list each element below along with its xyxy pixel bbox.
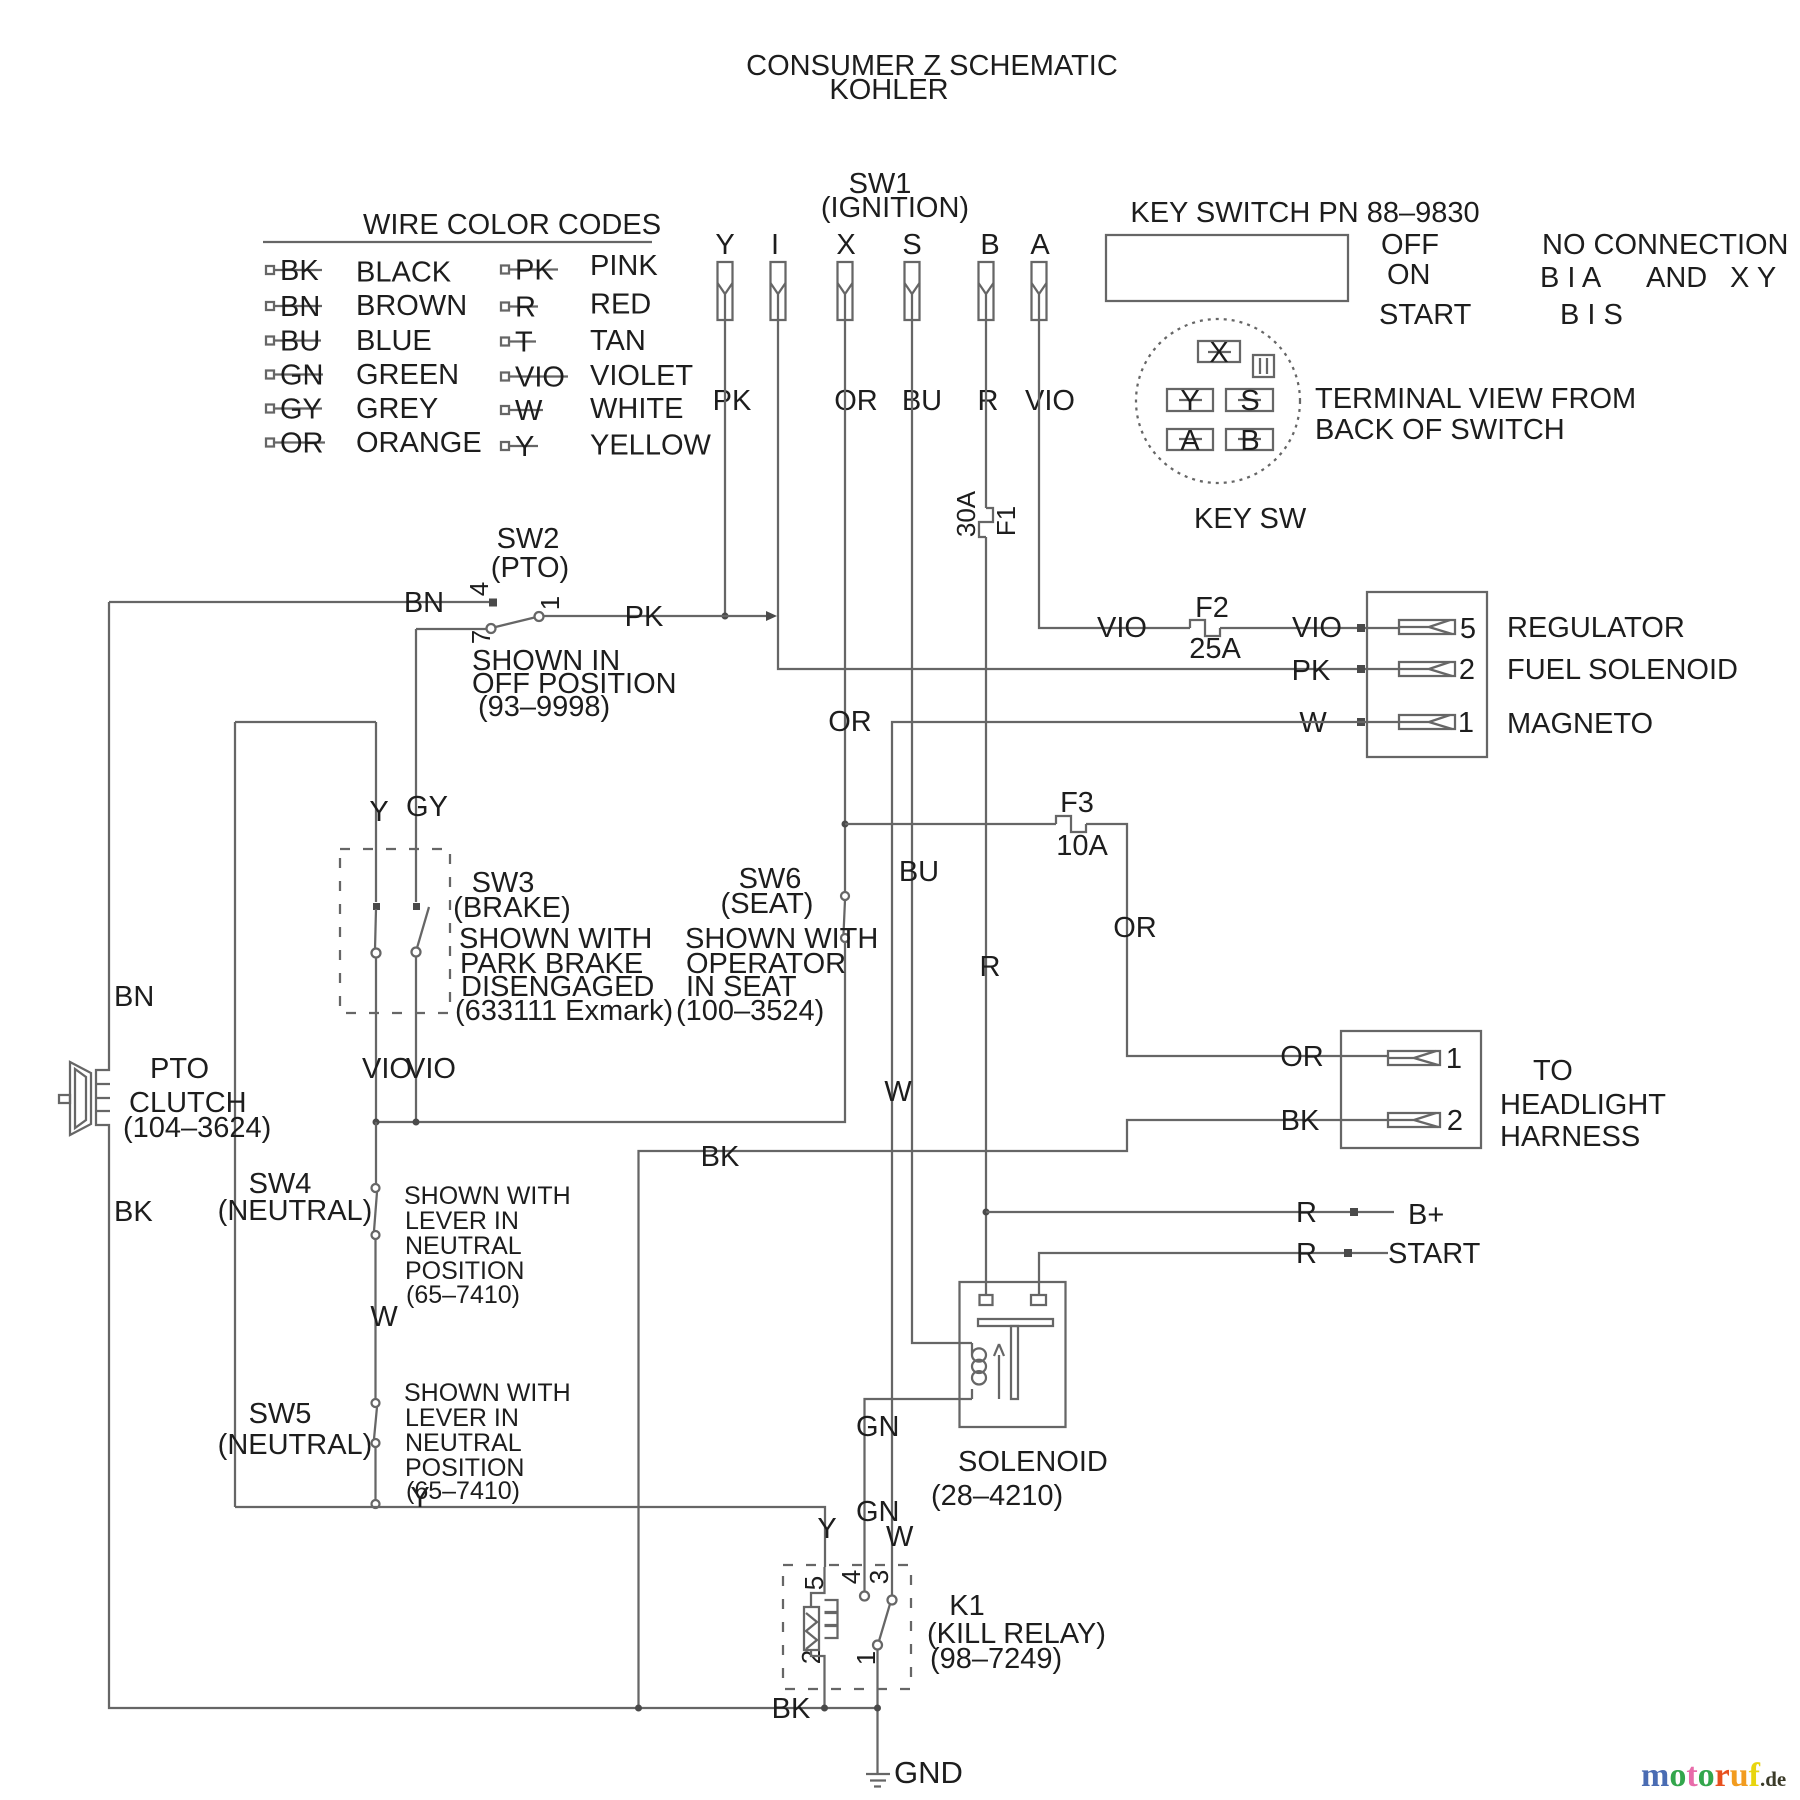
- SW1 terminal X connector: [838, 262, 853, 320]
- svg-text:BK: BK: [114, 1196, 153, 1228]
- terminal view box S: [1226, 389, 1273, 411]
- wire code OR ORANGE: [266, 439, 274, 447]
- svg-text:X: X: [836, 229, 855, 261]
- svg-text:OR: OR: [834, 385, 878, 417]
- terminal view box Y: [1167, 389, 1213, 411]
- svg-text:BROWN: BROWN: [356, 290, 467, 322]
- headlight connector terminal 1: [1388, 1051, 1440, 1065]
- wire code PK PINK: [501, 266, 509, 274]
- svg-text:KEY SW: KEY SW: [1194, 503, 1307, 535]
- wire PK from SW2 contact 1 to I wire: [544, 615, 771, 617]
- svg-text:NEUTRAL: NEUTRAL: [405, 1232, 522, 1260]
- svg-text:(98–7249): (98–7249): [930, 1643, 1062, 1675]
- svg-text:A: A: [1030, 229, 1050, 261]
- SW1 terminal A connector: [1032, 262, 1047, 320]
- svg-text:HEADLIGHT: HEADLIGHT: [1500, 1089, 1666, 1121]
- engine connector terminal 1 (magneto): [1399, 715, 1455, 729]
- svg-text:VIOLET: VIOLET: [590, 360, 693, 392]
- svg-text:NO CONNECTION: NO CONNECTION: [1542, 229, 1789, 261]
- svg-text:4: 4: [464, 582, 494, 596]
- engine connector terminal 5 (regulator): [1399, 620, 1455, 634]
- svg-text:OR: OR: [1113, 912, 1157, 944]
- svg-text:Y: Y: [715, 229, 734, 261]
- svg-text:RED: RED: [590, 289, 651, 321]
- svg-text:10A: 10A: [1056, 830, 1108, 862]
- wire X (OR) from SW1 X terminal down to seat switch: [844, 320, 846, 892]
- wire R to B+: [986, 1211, 1394, 1213]
- wire from SW2 contact 7 to GY riser: [416, 628, 487, 630]
- svg-text:2: 2: [1459, 654, 1475, 686]
- svg-text:BLACK: BLACK: [356, 257, 452, 289]
- svg-text:WHITE: WHITE: [590, 393, 683, 425]
- svg-text:1: 1: [1446, 1043, 1462, 1075]
- svg-text:4: 4: [836, 1570, 866, 1584]
- svg-text:BK: BK: [701, 1141, 740, 1173]
- PTO clutch wedge: [70, 1062, 91, 1135]
- svg-text:VIO: VIO: [362, 1053, 412, 1085]
- svg-text:X Y: X Y: [1730, 262, 1776, 294]
- kill relay coil output: [811, 1650, 825, 1708]
- wire I (PK) from SW1 I terminal to fuel solenoid: [778, 320, 1399, 669]
- svg-text:R: R: [515, 292, 536, 324]
- key switch box: [1106, 235, 1348, 301]
- svg-text:VIO: VIO: [1292, 612, 1342, 644]
- node square marker PK at fuel solenoid: [1357, 665, 1365, 673]
- wire VIO from fuse F2 to regulator connector: [1220, 627, 1399, 629]
- svg-text:X: X: [1209, 337, 1228, 369]
- svg-text:OR: OR: [828, 706, 872, 738]
- SW5 bottom contact: [372, 1439, 380, 1447]
- svg-text:(93–9998): (93–9998): [478, 691, 610, 723]
- SW3 left pole bottom contact: [372, 949, 381, 958]
- terminal view box A: [1167, 429, 1213, 450]
- node junction BK riser on bottom bus: [635, 1705, 642, 1712]
- svg-text:Y: Y: [410, 1482, 429, 1514]
- SW4 arm: [374, 1192, 377, 1231]
- node PK junction on Y wire: [722, 613, 729, 620]
- node VIO junction right: [413, 1119, 420, 1126]
- node junction relay coil on bottom bus: [821, 1705, 828, 1712]
- svg-text:R: R: [978, 385, 999, 417]
- SW1 terminal B connector: [979, 262, 994, 320]
- svg-text:BN: BN: [114, 981, 154, 1013]
- svg-text:BN: BN: [280, 291, 320, 323]
- solenoid plunger T bar: [978, 1319, 1053, 1326]
- svg-text:GN: GN: [280, 360, 324, 392]
- wire OR branch to fuse F3: [845, 823, 1056, 825]
- svg-text:OFF: OFF: [1381, 229, 1439, 261]
- svg-text:S: S: [902, 229, 921, 261]
- svg-text:F2: F2: [1195, 592, 1229, 624]
- node square marker W at magneto: [1357, 718, 1365, 726]
- svg-text:(NEUTRAL): (NEUTRAL): [218, 1429, 373, 1461]
- svg-text:F1: F1: [991, 506, 1021, 536]
- SW6 switch arm: [844, 900, 846, 934]
- svg-text:(NEUTRAL): (NEUTRAL): [218, 1195, 373, 1227]
- fuse F2 25A: [1190, 620, 1220, 636]
- wire BN/BK left bus with PTO clutch: [96, 602, 878, 1708]
- SW3 right pole top terminal: [413, 903, 420, 910]
- svg-text:(IGNITION): (IGNITION): [821, 192, 969, 224]
- solenoid terminal right (R): [1031, 1295, 1046, 1305]
- solenoid box: [960, 1282, 1066, 1427]
- svg-text:(SEAT): (SEAT): [721, 888, 814, 920]
- kill relay coil: [804, 1607, 819, 1650]
- svg-text:SHOWN WITH: SHOWN WITH: [404, 1182, 571, 1210]
- svg-text:Y: Y: [817, 1513, 836, 1545]
- ground symbol: [866, 1774, 890, 1787]
- svg-text:B I A: B I A: [1540, 262, 1602, 294]
- wire VIO from SW3 left pole down: [375, 957, 377, 1122]
- svg-text:PK: PK: [713, 385, 752, 417]
- svg-text:(104–3624): (104–3624): [123, 1112, 271, 1144]
- svg-text:BK: BK: [1281, 1105, 1320, 1137]
- svg-text:TERMINAL VIEW FROM: TERMINAL VIEW FROM: [1315, 383, 1636, 415]
- wire W between SW4 and SW5: [374, 1239, 376, 1399]
- solenoid coil: [972, 1343, 986, 1399]
- wire code BK BLACK: [266, 266, 274, 274]
- kill relay coil input jog: [811, 1567, 825, 1607]
- wire left riser down to Y bus: [234, 722, 236, 1507]
- wire GY from SW2 down to SW3: [415, 629, 417, 902]
- svg-text:(28–4210): (28–4210): [931, 1480, 1063, 1512]
- SW5 output terminal on Y bus: [372, 1500, 380, 1508]
- wire code GY GREY: [266, 405, 274, 413]
- terminal view box X: [1198, 341, 1240, 362]
- wire code BN BROWN: [266, 302, 274, 310]
- SW5 top contact: [372, 1399, 380, 1407]
- wire code R RED: [501, 303, 509, 311]
- wire code VIO VIOLET: [501, 373, 509, 381]
- svg-text:LEVER IN: LEVER IN: [405, 1207, 519, 1235]
- SW2 contact 7: [487, 624, 496, 633]
- svg-text:SW5: SW5: [249, 1398, 312, 1430]
- svg-text:W: W: [884, 1076, 912, 1108]
- SW3 right pole bottom contact: [412, 948, 421, 957]
- svg-text:SHOWN WITH: SHOWN WITH: [404, 1379, 571, 1407]
- svg-text:GND: GND: [894, 1755, 963, 1790]
- wire VIO from SW3 right pole down: [415, 956, 417, 1122]
- terminal view box B: [1226, 429, 1273, 450]
- fuse F3 10A: [1056, 816, 1086, 832]
- node square marker B+: [1350, 1208, 1358, 1216]
- svg-text:MAGNETO: MAGNETO: [1507, 708, 1653, 740]
- svg-text:(633111 Exmark): (633111 Exmark): [455, 995, 673, 1027]
- svg-text:BN: BN: [404, 587, 444, 619]
- svg-text:30A: 30A: [951, 490, 981, 537]
- SW1 terminal Y connector: [718, 262, 733, 320]
- kill relay pivot contact 1: [873, 1641, 882, 1650]
- wire A (VIO) from SW1 A terminal to fuse F2: [1039, 320, 1190, 628]
- solenoid arrow up: [994, 1344, 1004, 1399]
- kill relay arm: [879, 1604, 890, 1641]
- svg-text:KEY SWITCH PN 88–9830: KEY SWITCH PN 88–9830: [1130, 197, 1479, 229]
- PTO clutch prongs: [96, 1084, 110, 1111]
- svg-text:Y: Y: [369, 796, 388, 828]
- headlight connector box: [1341, 1031, 1481, 1148]
- svg-text:BU: BU: [902, 385, 942, 417]
- kill relay common to ground: [876, 1650, 878, 1775]
- svg-text:W: W: [370, 1301, 398, 1333]
- svg-text:PK: PK: [1292, 655, 1331, 687]
- PTO clutch tab: [59, 1095, 70, 1103]
- svg-text:B: B: [1240, 425, 1259, 457]
- svg-text:B: B: [980, 229, 999, 261]
- headlight connector terminal 2: [1388, 1113, 1440, 1127]
- terminal view circle: [1136, 319, 1300, 483]
- svg-text:OR: OR: [280, 428, 324, 460]
- svg-text:BU: BU: [899, 856, 939, 888]
- switch SW3 dashed box: [340, 849, 450, 1013]
- wire W from magneto down to kill relay: [892, 722, 1399, 1596]
- svg-text:ON: ON: [1387, 259, 1431, 291]
- svg-text:ORANGE: ORANGE: [356, 427, 482, 459]
- wire code Y YELLOW: [501, 442, 509, 450]
- svg-text:(100–3524): (100–3524): [676, 995, 824, 1027]
- wire bridge from left riser to Y riser: [235, 721, 376, 723]
- node junction B+ on R wire: [983, 1209, 990, 1216]
- kill relay dashed box: [783, 1565, 911, 1689]
- engine connector terminal 2 (fuel solenoid): [1399, 662, 1455, 676]
- kill relay contact 3: [888, 1596, 897, 1605]
- wire GN from solenoid coil to kill relay: [865, 1399, 973, 1591]
- svg-text:S: S: [1240, 385, 1259, 417]
- SW1 terminal I connector: [771, 262, 786, 320]
- svg-text:R: R: [1296, 1238, 1317, 1270]
- svg-text:OR: OR: [1280, 1041, 1324, 1073]
- SW4 bottom contact: [372, 1231, 380, 1239]
- wire Y bus: [235, 1507, 825, 1567]
- wire Y (PK) from SW1 Y terminal: [724, 320, 726, 616]
- svg-text:AND: AND: [1646, 262, 1707, 294]
- svg-text:T: T: [515, 327, 533, 359]
- svg-text:PINK: PINK: [590, 250, 658, 282]
- SW3 right pole arm (open): [417, 907, 429, 948]
- svg-text:SW2: SW2: [497, 523, 560, 555]
- svg-text:R: R: [1296, 1197, 1317, 1229]
- svg-text:VIO: VIO: [515, 362, 565, 394]
- svg-text:VIO: VIO: [1097, 612, 1147, 644]
- solenoid terminal left (R): [980, 1295, 993, 1305]
- svg-text:(65–7410): (65–7410): [406, 1281, 520, 1309]
- svg-text:VIO: VIO: [406, 1053, 456, 1085]
- svg-text:(BRAKE): (BRAKE): [453, 892, 571, 924]
- svg-text:F3: F3: [1060, 787, 1094, 819]
- wire code GN GREEN: [266, 371, 274, 379]
- wire VIO riser down to SW4: [375, 1122, 377, 1184]
- kill relay contact 4: [860, 1592, 869, 1601]
- svg-text:GY: GY: [406, 791, 448, 823]
- svg-text:HARNESS: HARNESS: [1500, 1121, 1640, 1153]
- svg-text:GREEN: GREEN: [356, 359, 459, 391]
- svg-text:B I S: B I S: [1560, 299, 1623, 331]
- svg-text:PK: PK: [515, 255, 554, 287]
- SW2 contact 1: [535, 612, 544, 621]
- svg-text:REGULATOR: REGULATOR: [1507, 612, 1685, 644]
- svg-text:BK: BK: [280, 255, 319, 287]
- svg-text:NEUTRAL: NEUTRAL: [405, 1429, 522, 1457]
- svg-text:W: W: [886, 1521, 914, 1553]
- wire BN from left bus to SW2 terminal 4: [109, 601, 489, 603]
- svg-text:START: START: [1379, 299, 1472, 331]
- svg-text:5: 5: [1460, 613, 1476, 645]
- svg-text:25A: 25A: [1189, 633, 1241, 665]
- wire B (R) lower segment to solenoid: [985, 537, 987, 1295]
- svg-text:YELLOW: YELLOW: [590, 430, 711, 462]
- wire code W WHITE: [501, 406, 509, 414]
- svg-text:KOHLER: KOHLER: [829, 74, 948, 106]
- SW6 bottom contact: [841, 934, 849, 942]
- SW3 left pole top terminal: [373, 903, 380, 910]
- SW5 arm: [374, 1407, 377, 1439]
- node arrow into I wire: [766, 611, 777, 621]
- svg-text:PK: PK: [625, 601, 664, 633]
- SW3 left pole arm: [375, 909, 376, 949]
- svg-text:TO: TO: [1533, 1055, 1573, 1087]
- svg-text:BU: BU: [280, 326, 320, 358]
- svg-text:Y: Y: [1180, 385, 1199, 417]
- svg-text:3: 3: [864, 1570, 894, 1584]
- SW1 terminal S connector: [905, 262, 920, 320]
- svg-text:1: 1: [535, 596, 565, 610]
- wire OR from fuse F3 to headlight connector: [1086, 824, 1388, 1056]
- fuse F1 30A: [979, 508, 993, 537]
- svg-text:BLUE: BLUE: [356, 325, 432, 357]
- svg-text:(PTO): (PTO): [491, 552, 569, 584]
- wire Y riser down to SW3: [375, 722, 377, 902]
- SW2 terminal 4 marker: [489, 599, 497, 607]
- svg-text:GREY: GREY: [356, 393, 438, 425]
- svg-text:VIO: VIO: [1025, 385, 1075, 417]
- wire S (BU) from SW1 S terminal to solenoid coil: [912, 320, 972, 1343]
- svg-text:SOLENOID: SOLENOID: [958, 1446, 1108, 1478]
- svg-text:W: W: [515, 395, 543, 427]
- svg-text:LEVER IN: LEVER IN: [405, 1404, 519, 1432]
- node junction ground stem on bottom bus: [874, 1705, 881, 1712]
- engine connector box: [1367, 592, 1487, 757]
- svg-text:Y: Y: [515, 431, 534, 463]
- svg-text:GN: GN: [856, 1411, 900, 1443]
- wire B (R) upper segment to fuse F1: [985, 320, 987, 508]
- svg-text:GY: GY: [280, 394, 322, 426]
- svg-text:7: 7: [466, 630, 496, 644]
- wire code T TAN: [501, 338, 509, 346]
- svg-text:1: 1: [1458, 707, 1474, 739]
- svg-text:FUEL SOLENOID: FUEL SOLENOID: [1507, 654, 1738, 686]
- wire code BU BLUE: [266, 337, 274, 345]
- svg-text:WIRE COLOR CODES: WIRE COLOR CODES: [363, 209, 661, 241]
- svg-text:I: I: [771, 229, 779, 261]
- wire OR from SW6 down and across to VIO risers: [376, 942, 845, 1122]
- wire color codes underline: [263, 241, 652, 243]
- terminal view box II: [1253, 355, 1274, 377]
- svg-text:2: 2: [1447, 1105, 1463, 1137]
- SW2 switch arm: [496, 618, 535, 628]
- wire BK to headlight connector: [639, 1120, 1389, 1708]
- node junction on OR wire at F3 branch: [842, 821, 849, 828]
- svg-text:TAN: TAN: [590, 325, 646, 357]
- svg-text:B+: B+: [1408, 1199, 1444, 1231]
- svg-text:BK: BK: [772, 1693, 811, 1725]
- wire R to START from solenoid: [1039, 1253, 1388, 1295]
- node square marker VIO at regulator: [1357, 624, 1365, 632]
- wire from SW5 to Y bus: [374, 1447, 376, 1500]
- svg-text:R: R: [980, 951, 1001, 983]
- svg-text:PTO: PTO: [150, 1053, 209, 1085]
- svg-text:BACK OF SWITCH: BACK OF SWITCH: [1315, 414, 1565, 446]
- SW4 top contact: [372, 1184, 380, 1192]
- svg-text:START: START: [1388, 1238, 1481, 1270]
- svg-text:A: A: [1180, 425, 1200, 457]
- SW6 top contact: [841, 892, 849, 900]
- node VIO junction left: [373, 1119, 380, 1126]
- node square marker START: [1344, 1249, 1352, 1257]
